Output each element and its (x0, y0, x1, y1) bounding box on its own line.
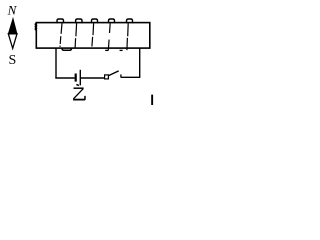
stray mark bottom right (151, 95, 153, 105)
switch lever (109, 71, 119, 76)
coil turn 5 top arc (127, 19, 133, 23)
switch pivot (105, 75, 109, 79)
solenoid tube rectangle (36, 23, 150, 48)
label Yi (coil name) tick stroke (76, 84, 79, 85)
label Yi hook (84, 96, 86, 100)
switch contact (120, 74, 122, 77)
label Yi diagonal (73, 89, 83, 99)
coil bottom stub A (105, 49, 108, 51)
coil turn 2 crossing wire (75, 23, 77, 47)
coil turn 5 crossing wire (127, 23, 128, 50)
coil turn 2 top arc (76, 19, 82, 23)
coil turn 1 top arc (57, 19, 64, 23)
coil lead ticks on left edge (35, 23, 36, 30)
coil turn 4 crossing wire (108, 23, 110, 50)
label Yi top bar (74, 87, 84, 89)
coil bottom return arc under turn 1 (62, 48, 72, 50)
wire switch to right (121, 76, 140, 78)
coil bottom stub B (120, 49, 123, 51)
coil turn 3 crossing wire (92, 23, 94, 46)
wire left vertical (55, 48, 57, 78)
wire bottom left (55, 77, 74, 79)
coil turn 1 crossing wire (60, 23, 62, 47)
svg-text:N: N (7, 2, 18, 17)
battery negative plate (75, 74, 77, 82)
wire battery to switch (81, 77, 105, 79)
svg-text:S: S (9, 53, 17, 68)
compass needle north half (filled) (8, 18, 17, 34)
battery positive plate (79, 70, 81, 86)
coil turn 3 top arc (92, 19, 98, 23)
label Yi bottom bar (73, 99, 85, 101)
coil turn 4 top arc (109, 19, 115, 23)
wire right vertical (139, 48, 141, 77)
compass needle south half (open) (8, 34, 17, 49)
